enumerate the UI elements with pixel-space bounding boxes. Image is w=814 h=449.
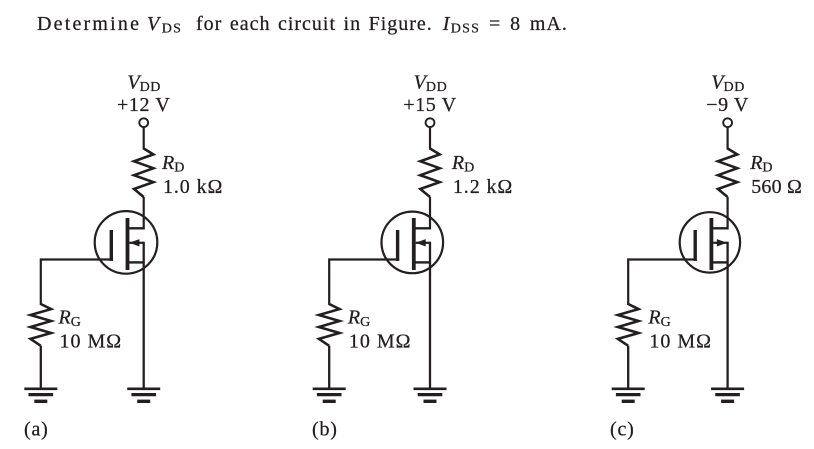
svg-text:560 Ω: 560 Ω [751,176,802,198]
svg-text:10 MΩ: 10 MΩ [349,330,412,352]
ground right (b) [414,389,447,402]
Q channel bar (a) [126,218,130,270]
Q substrate arrow (c) [713,242,727,244]
svg-text:VDD: VDD [414,72,448,96]
svg-text:RD: RD [749,152,773,176]
circuit (c) [610,72,802,441]
svg-text:+15 V: +15 V [403,94,456,116]
wire VDD to RD (c) [726,127,728,150]
ground left (b) [313,389,346,402]
Q substrate arrow (b) [416,242,430,244]
resistor RG (b) [319,304,340,346]
Q source stub (a) [129,261,144,263]
ground left (a) [24,389,57,402]
Q drain stub (a) [129,227,144,229]
Q gate bar (c) [694,230,697,261]
svg-text:(c): (c) [610,419,635,441]
wire gate (c) [628,260,697,306]
Q channel bar (b) [412,218,416,270]
svg-text:1.0 kΩ: 1.0 kΩ [163,176,223,198]
wire RG to ground (b) [328,346,330,388]
wire source to ground (c) [726,242,728,388]
svg-text:(a): (a) [24,419,49,441]
title [37,13,568,37]
ground right (a) [127,389,160,402]
svg-text:1.2 kΩ: 1.2 kΩ [453,176,513,198]
circuit (a) [24,72,223,441]
wire source to ground (a) [143,242,145,388]
Q gate bar (b) [396,230,399,261]
wire source to ground (b) [429,242,431,388]
Q substrate arrow (a) [129,242,143,244]
Q source stub (b) [416,261,431,263]
svg-text:Determine: Determine [37,13,141,35]
VDD terminal node (a) [139,118,148,127]
wire gate (b) [329,260,399,306]
wire RD to drain stub (a) [143,197,145,230]
Q channel bar (c) [710,218,714,270]
svg-text:RG: RG [58,307,82,331]
VDD terminal node (c) [723,118,732,127]
svg-text:RD: RD [161,152,185,176]
resistor RG (a) [31,304,52,346]
wire gate (a) [41,260,113,306]
svg-text:+12 V: +12 V [117,94,170,116]
svg-text:VDD: VDD [127,72,161,96]
resistor RD (a) [134,149,153,198]
Q gate bar (a) [110,230,113,261]
svg-text:V: V [147,13,162,35]
VDD terminal node (b) [426,118,435,127]
Q drain stub (c) [713,227,728,229]
svg-text:DSS: DSS [451,22,480,37]
svg-text:RG: RG [647,307,671,331]
transistor Q (b) D-MOSFET body circle [382,212,444,274]
circuit (b) [312,72,513,441]
transistor Q (c) D-MOSFET body circle [680,212,740,272]
svg-text:= 8 mA.: = 8 mA. [489,13,568,35]
wire RD to drain stub (c) [726,197,728,230]
svg-text:RG: RG [347,307,371,331]
svg-text:−9 V: −9 V [706,94,749,116]
ground left (c) [612,389,645,402]
resistor RD (c) [718,149,737,198]
svg-text:for each circuit in Figure.: for each circuit in Figure. [196,13,433,35]
wire RG to ground (c) [627,346,629,388]
wire RG to ground (a) [40,346,42,388]
resistor RG (c) [618,304,639,346]
svg-text:(b): (b) [312,419,338,441]
svg-text:RD: RD [451,152,475,176]
Q drain stub (b) [416,227,431,229]
svg-text:10 MΩ: 10 MΩ [60,330,123,352]
wire VDD to RD (a) [143,127,145,150]
ground right (c) [711,389,744,402]
svg-text:I: I [442,13,451,35]
svg-text:VDD: VDD [711,72,745,96]
Q source stub (c) [713,261,728,263]
svg-text:10 MΩ: 10 MΩ [649,330,712,352]
transistor Q (a) D-MOSFET body circle [95,211,158,274]
wire RD to drain stub (b) [429,197,431,230]
wire VDD to RD (b) [429,127,431,150]
resistor RD (b) [420,149,439,198]
svg-text:DS: DS [162,22,182,37]
